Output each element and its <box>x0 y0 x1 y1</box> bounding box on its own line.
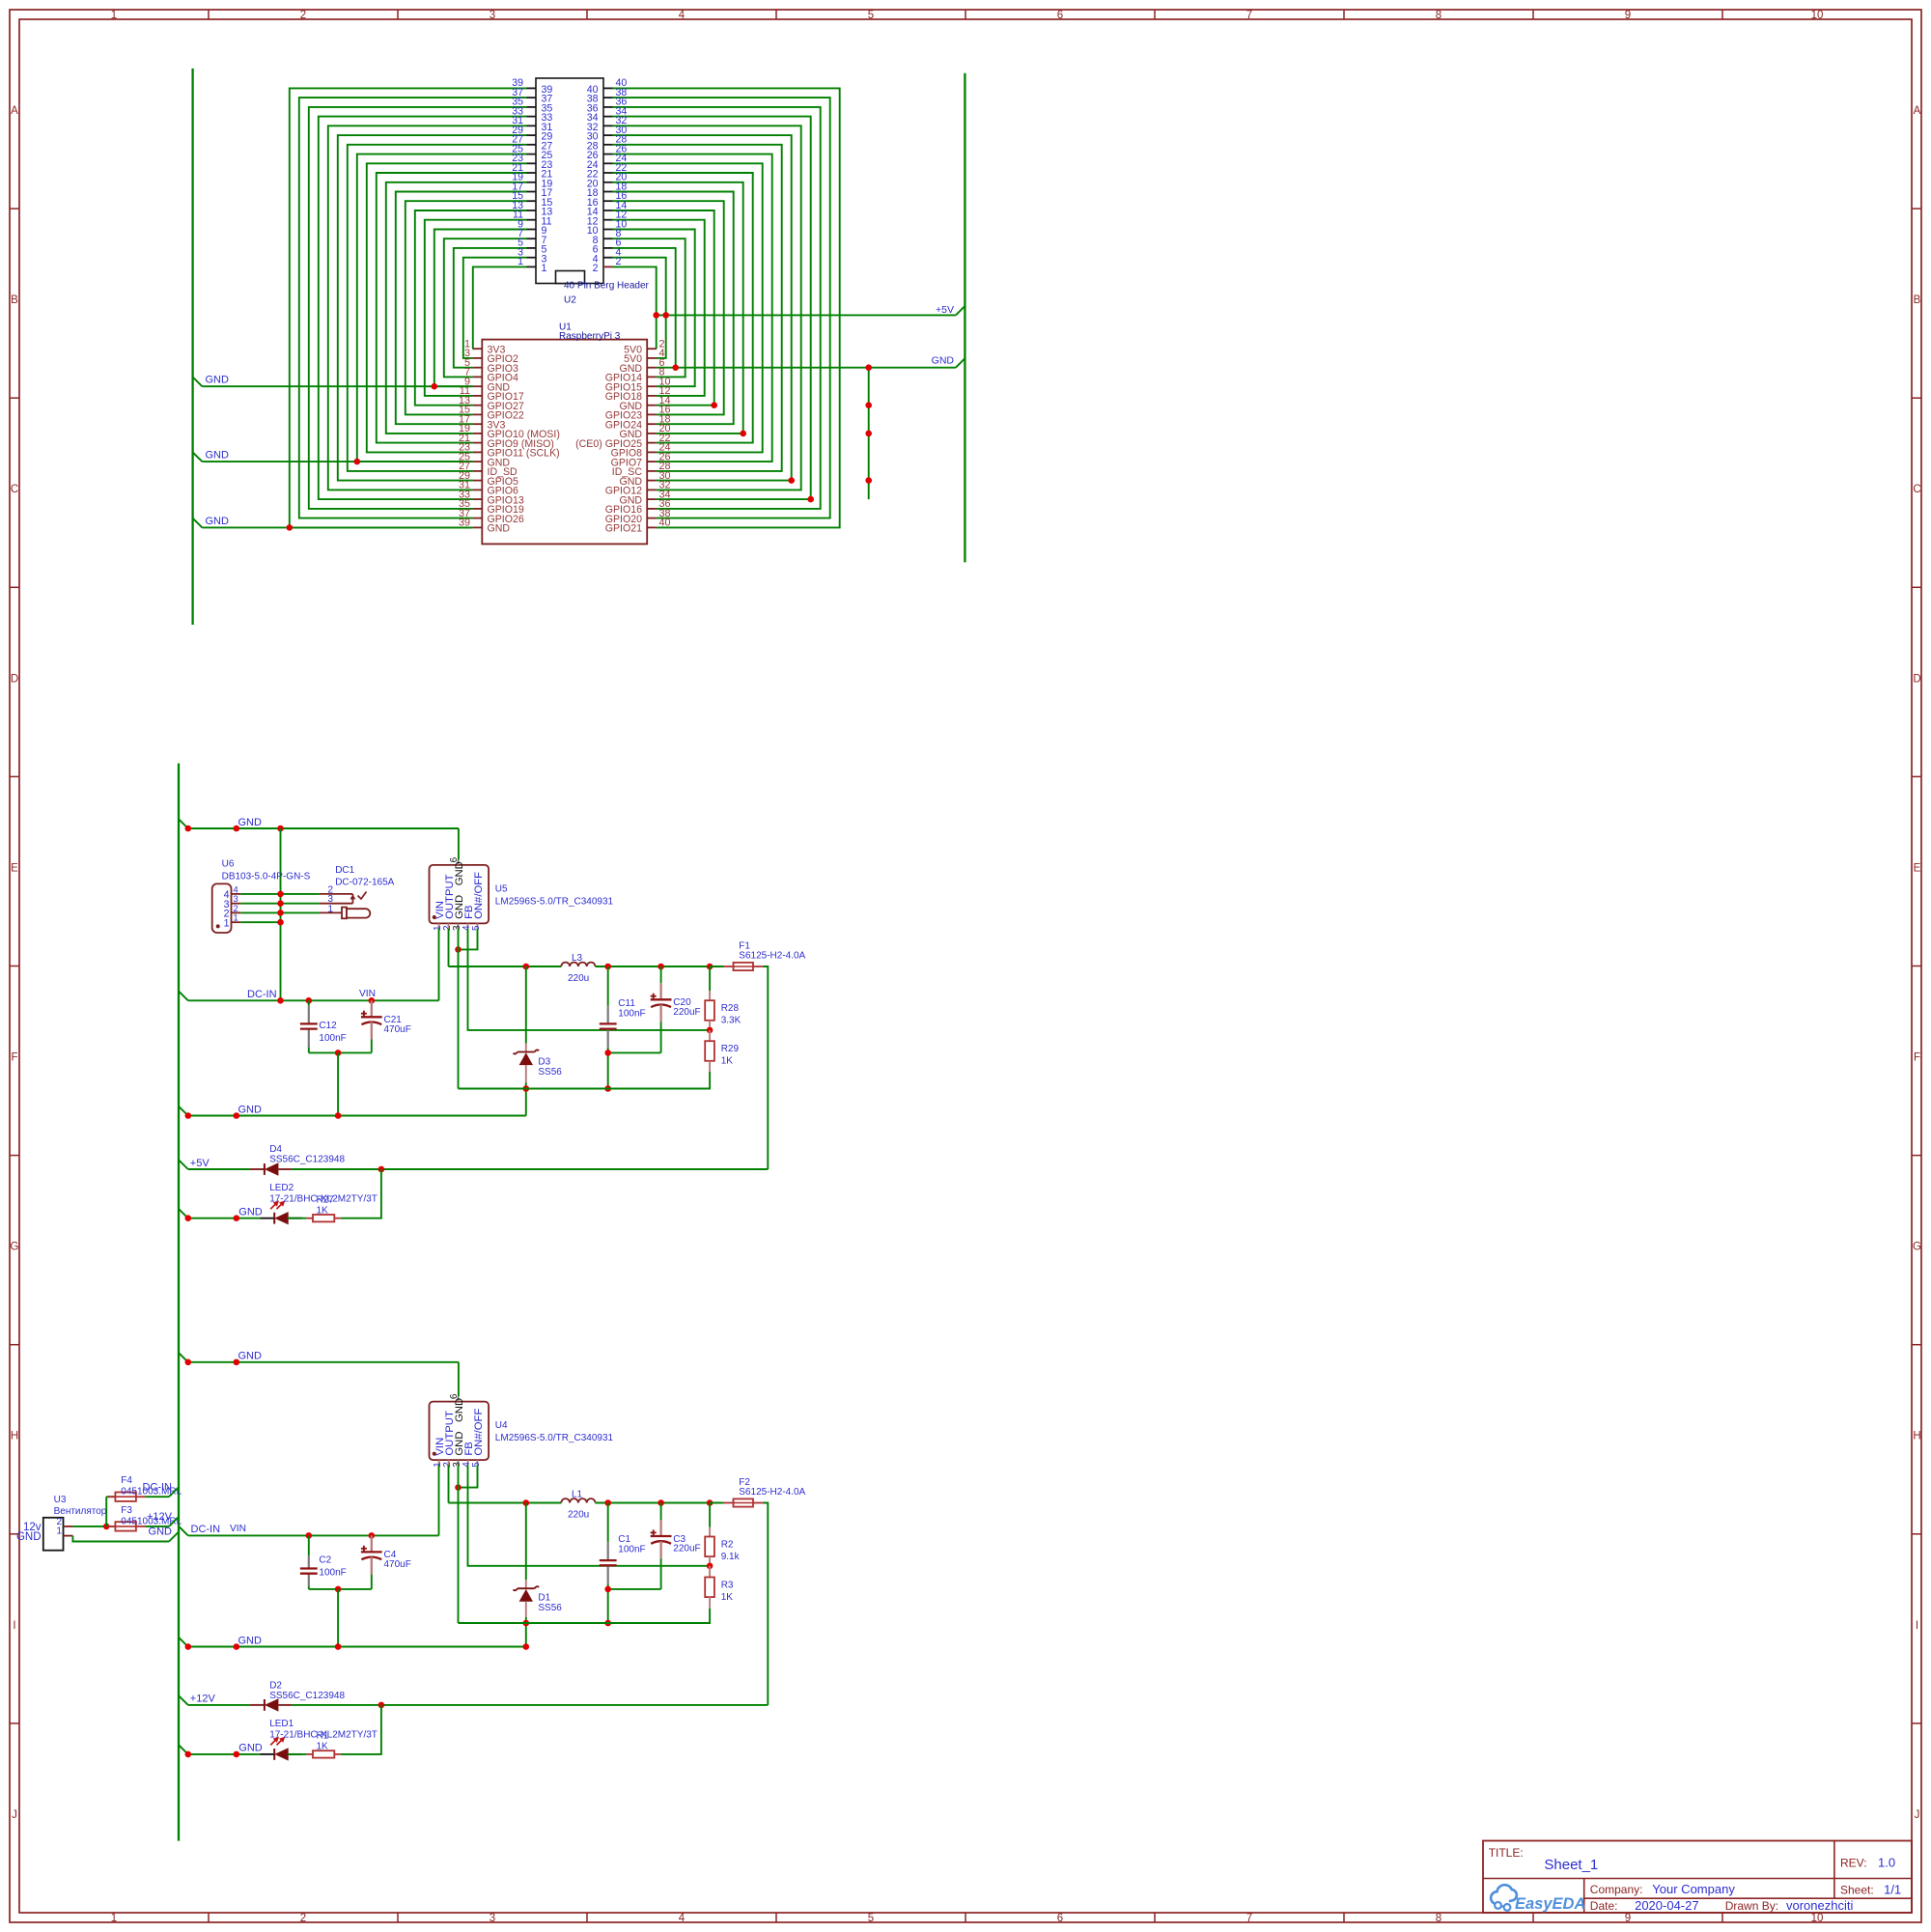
wire OUTPUT to D3 <box>525 966 527 1044</box>
wire OUTPUT to C1 <box>607 1503 609 1543</box>
svg-text:G: G <box>11 1242 19 1253</box>
svg-text:D3: D3 <box>538 1056 550 1067</box>
net label GND right <box>932 355 955 367</box>
wire U2 pin 12 to U1 pin 12 <box>613 220 705 396</box>
svg-text:Date:: Date: <box>1590 1899 1618 1913</box>
U4 pin 5 ON#/OFF <box>471 1409 485 1468</box>
svg-text:40 Pin Berg Header: 40 Pin Berg Header <box>564 280 650 291</box>
U2 pin 5 stub+numbers <box>518 238 546 256</box>
wire U2 pin 27 to U1 pin 27 <box>348 145 527 471</box>
wire C3 corner to C1 <box>608 1588 661 1590</box>
U1 pin 30 GND <box>619 470 670 488</box>
U1 pin 28 ID_SC <box>612 461 671 478</box>
net label GND <box>179 1104 262 1115</box>
wire U5 pin2 OUTPUT down <box>448 929 450 966</box>
diode D1 SS56 <box>514 1580 540 1623</box>
wire U3 pin2 to junction <box>72 1526 115 1527</box>
wire OUTPUT to F1 <box>710 966 723 967</box>
U5 pin 6 GND top <box>449 856 465 885</box>
wire VIN to C2 <box>308 1535 310 1555</box>
svg-text:R27: R27 <box>317 1195 335 1206</box>
svg-text:C11: C11 <box>618 998 635 1009</box>
connector U6 DB103 body <box>212 883 232 933</box>
svg-text:ON#/OFF: ON#/OFF <box>473 872 485 919</box>
net label DC-IN <box>179 989 277 1000</box>
wire U2 pin 34 to U1 pin 34 <box>613 117 811 499</box>
wire GND row 2 <box>188 1115 526 1117</box>
wire U2 pin 40 to U1 pin 40 <box>613 88 840 527</box>
U2 pin 16 stub+numbers <box>587 190 628 209</box>
net label GND <box>206 516 230 527</box>
U2 pin 10 stub+numbers <box>587 218 628 237</box>
wire C12 down <box>308 1048 310 1053</box>
U2 pin 24 stub+numbers <box>587 153 628 171</box>
U2 pin 9 stub+numbers <box>518 218 546 237</box>
wire U6 pin2 to DC1 pin1 <box>240 911 319 913</box>
wire C2-C4 join <box>309 1588 372 1590</box>
wire U2 pin 21 to U1 pin 21 <box>377 173 527 443</box>
diode D4 SS56C_C123948 <box>250 1162 293 1175</box>
wire F2 to +12V corner <box>763 1503 768 1705</box>
wire join to GND row <box>337 1052 339 1115</box>
svg-text:2: 2 <box>616 256 622 267</box>
junction C1 join <box>604 1586 611 1593</box>
svg-text:LM2596S-5.0/TR_C340931: LM2596S-5.0/TR_C340931 <box>495 1433 614 1443</box>
svg-text:D1: D1 <box>538 1592 550 1603</box>
R2 labels <box>721 1540 741 1563</box>
F3 labels <box>121 1505 182 1527</box>
U3 labels <box>54 1495 107 1517</box>
wire U2 pin 10 to U1 pin 10 <box>613 230 695 387</box>
junction <box>354 459 361 465</box>
resistor R29 1K <box>705 1030 714 1072</box>
junction pin5-pin3 <box>455 946 462 953</box>
svg-text:1/1: 1/1 <box>1884 1883 1901 1897</box>
svg-text:C: C <box>1913 484 1920 495</box>
R3 labels <box>721 1581 734 1604</box>
svg-text:1: 1 <box>111 10 117 21</box>
resistor R3 1K <box>705 1566 714 1609</box>
junctions OUTPUT row <box>523 964 714 970</box>
U2 pin 11 stub+numbers <box>513 210 552 228</box>
wire VIN to C12 <box>308 1000 310 1005</box>
svg-text:I: I <box>1916 1620 1918 1632</box>
wire VIN row bottom <box>188 1534 439 1536</box>
svg-text:LM2596S-5.0/TR_C340931: LM2596S-5.0/TR_C340931 <box>495 897 614 908</box>
svg-text:1K: 1K <box>721 1056 734 1067</box>
inductor L3 <box>561 953 595 984</box>
fuse F4 0451003.MRL <box>108 1493 145 1501</box>
svg-text:+12V: +12V <box>190 1694 216 1705</box>
wire U2 pin 5 to U1 pin 5 <box>454 248 527 368</box>
svg-text:1: 1 <box>518 256 523 267</box>
net label VIN bottom <box>230 1524 246 1534</box>
wire GND from left trunk to U1 pin 9 <box>193 378 473 387</box>
svg-text:470uF: 470uF <box>384 1559 411 1570</box>
U1 pin 11 GPIO17 <box>460 385 524 403</box>
net label VIN <box>359 989 376 999</box>
fuse F1 S6125-H2-4.0A <box>723 963 763 970</box>
frame column numbers top <box>111 10 1824 21</box>
svg-text:REV:: REV: <box>1840 1857 1867 1870</box>
svg-text:D: D <box>1913 673 1920 685</box>
U2 pin 27 stub+numbers <box>512 134 552 153</box>
svg-text:3: 3 <box>490 10 495 21</box>
svg-text:R1: R1 <box>317 1731 329 1742</box>
U2 pin 8 stub+numbers <box>593 228 622 246</box>
svg-text:8: 8 <box>1436 10 1441 21</box>
U1 pin 33 GPIO13 <box>459 489 524 506</box>
wire +5V row to D4 <box>188 1168 250 1170</box>
svg-text:DC-IN: DC-IN <box>191 1524 221 1535</box>
svg-text:ON#/OFF: ON#/OFF <box>473 1409 485 1456</box>
junction FB row <box>707 1027 714 1034</box>
U1 pin 36 GPIO16 <box>605 498 671 516</box>
capacitor C3 220uF (polarized) <box>651 1520 672 1589</box>
wire U2 pin 14 to U1 pin 14 <box>613 210 714 406</box>
wire OUTPUT to C20 <box>660 966 662 983</box>
net label +12V <box>147 1511 179 1526</box>
R29 labels <box>721 1044 740 1067</box>
wire OUTPUT to C11 <box>607 966 609 1005</box>
svg-text:U4: U4 <box>495 1420 508 1431</box>
svg-text:F: F <box>1914 1052 1920 1064</box>
svg-text:+5V: +5V <box>936 304 954 316</box>
capacitor C1 100nF <box>600 1542 617 1583</box>
wire GND top row to U5 pin6 <box>188 828 459 860</box>
svg-text:100nF: 100nF <box>319 1033 346 1044</box>
U2 pin 33 stub+numbers <box>512 105 552 124</box>
svg-text:10: 10 <box>1811 10 1824 21</box>
U1 pin 3 GPIO2 <box>464 348 518 365</box>
U2 pin 39 stub+numbers <box>512 77 552 96</box>
svg-text:Company:: Company: <box>1590 1883 1643 1896</box>
net label GND <box>206 450 230 462</box>
wire C2 down <box>308 1586 310 1589</box>
junctions GND top row <box>185 826 284 832</box>
svg-text:VIN: VIN <box>359 989 376 999</box>
svg-text:Your Company: Your Company <box>1652 1882 1735 1896</box>
capacitor C21 470uF (polarized) <box>361 1000 382 1052</box>
wire junction up to F4 <box>106 1497 115 1526</box>
U2 pin 40 stub+numbers <box>587 77 628 96</box>
U1 pin 5 GPIO3 <box>464 357 518 375</box>
svg-text:4: 4 <box>234 884 238 894</box>
svg-text:VIN: VIN <box>230 1524 246 1534</box>
U1 pin 16 GPIO23 <box>605 405 671 422</box>
svg-text:1: 1 <box>542 263 547 274</box>
svg-text:GND: GND <box>206 375 230 386</box>
wire OUTPUT row after L3 <box>596 966 724 967</box>
svg-text:1: 1 <box>111 1913 117 1924</box>
svg-text:H: H <box>11 1431 18 1442</box>
U2 pin 31 stub+numbers <box>512 115 552 133</box>
svg-text:2: 2 <box>300 1913 306 1924</box>
wire D1 to GND row <box>525 1623 527 1647</box>
junctions GND top row bottom-section <box>185 1359 240 1366</box>
svg-text:Drawn By:: Drawn By: <box>1725 1899 1778 1913</box>
svg-text:GND: GND <box>238 817 263 828</box>
wire F1 to +5V corner <box>763 966 768 1169</box>
R1 labels <box>317 1731 329 1752</box>
svg-text:S6125-H2-4.0A: S6125-H2-4.0A <box>739 1487 805 1498</box>
wire U4 pin1 VIN down <box>438 1466 440 1536</box>
wire F3 to +12V flag <box>145 1526 169 1527</box>
wire GND rail bottom <box>459 1622 711 1624</box>
U1 pin 25 GND <box>459 451 510 468</box>
svg-text:1: 1 <box>327 904 333 914</box>
U1 pin 4 5V0 <box>624 348 664 365</box>
svg-text:GND: GND <box>238 1104 263 1115</box>
wire U4 pin4 FB down to FB row <box>468 1466 711 1566</box>
svg-text:D: D <box>11 673 18 685</box>
wire U2 pin 22 to U1 pin 22 <box>613 173 753 443</box>
junction join mid bottom <box>335 1586 342 1593</box>
wire GND from left trunk to U1 pin 39 <box>193 518 473 528</box>
U1 pin 26 GPIO7 <box>611 451 671 468</box>
U6 pin 3 <box>224 894 241 910</box>
svg-text:R29: R29 <box>721 1044 740 1054</box>
wire U2 pin 30 to U1 pin 30 <box>613 135 792 481</box>
wire U2 pin 31 to U1 pin 31 <box>328 126 527 490</box>
U2 pin 36 stub+numbers <box>587 97 628 115</box>
svg-text:GPIO21: GPIO21 <box>605 523 642 535</box>
junctions U6 bus <box>277 891 284 926</box>
U1 pin 15 GPIO22 <box>459 405 524 422</box>
svg-text:DC-IN: DC-IN <box>247 989 277 1000</box>
IC U1 RaspberryPi 3 body <box>482 340 647 545</box>
svg-text:GND: GND <box>932 355 955 367</box>
U6 pin 1 <box>224 913 241 930</box>
U6 labels <box>222 858 311 882</box>
C3 labels <box>673 1534 700 1554</box>
net label GND <box>149 1526 179 1542</box>
junctions GND bus <box>672 364 872 502</box>
wire OUTPUT to R28 <box>709 966 711 991</box>
U3 pin 1 GND <box>16 1526 72 1544</box>
U4 pin 6 GND top <box>449 1393 465 1422</box>
wire +12V row to D2 <box>188 1704 250 1706</box>
wire U2 pin 19 to U1 pin 19 <box>386 182 527 434</box>
U1 pin 23 GPIO11 (SCLK) <box>459 442 560 460</box>
wire OUTPUT row bottom <box>449 1502 562 1504</box>
left vertical trunk GND (RPi) <box>191 69 193 625</box>
svg-text:220uF: 220uF <box>673 1544 700 1554</box>
svg-text:220uF: 220uF <box>673 1007 700 1018</box>
junctions rail <box>523 1085 612 1092</box>
junctions LED2 row <box>185 1215 240 1221</box>
net label GND <box>179 1351 262 1362</box>
svg-text:G: G <box>1913 1242 1921 1253</box>
svg-text:7: 7 <box>1246 10 1252 21</box>
svg-text:6: 6 <box>1057 10 1063 21</box>
svg-text:DC-072-165A: DC-072-165A <box>335 878 394 888</box>
net label GND <box>179 1207 263 1218</box>
U1 pin 14 GND <box>619 395 670 412</box>
wire GND rail <box>459 1088 711 1090</box>
svg-text:F4: F4 <box>121 1475 132 1486</box>
svg-text:S6125-H2-4.0A: S6125-H2-4.0A <box>739 951 805 962</box>
U1 labels <box>559 322 621 343</box>
U5 pin 1 VIN <box>433 901 446 931</box>
svg-text:9.1k: 9.1k <box>721 1552 741 1562</box>
svg-text:1K: 1K <box>317 1206 329 1217</box>
svg-text:E: E <box>1914 862 1921 874</box>
svg-text:LED1: LED1 <box>269 1719 294 1729</box>
D2 labels <box>269 1681 345 1701</box>
svg-text:2: 2 <box>300 10 306 21</box>
U1 pin 39 GND <box>459 518 510 535</box>
svg-text:SS56C_C123948: SS56C_C123948 <box>269 1691 345 1701</box>
svg-text:Вентилятор: Вентилятор <box>54 1506 107 1517</box>
junctions GND row 2 <box>185 1112 342 1119</box>
svg-text:F: F <box>11 1052 17 1064</box>
wire U2 pin 38 to U1 pin 38 <box>613 98 830 518</box>
C12 labels <box>319 1021 346 1044</box>
GND bus vertical right of U1 <box>868 368 870 499</box>
U3 pin 2 12v <box>23 1517 72 1533</box>
wire GND top row to U4 pin6 <box>188 1362 459 1397</box>
U2 pin 30 stub+numbers <box>587 125 628 143</box>
svg-text:U3: U3 <box>54 1495 67 1505</box>
wire R29 to rail corner <box>459 1072 711 1089</box>
U1 pin 21 GPIO9 (MISO) <box>459 433 554 450</box>
svg-text:GND: GND <box>238 1743 262 1754</box>
svg-text:DC-IN: DC-IN <box>142 1481 172 1493</box>
wire U2 pin 39 to U1 pin 39 <box>290 88 527 527</box>
svg-text:C2: C2 <box>319 1555 331 1566</box>
svg-text:220u: 220u <box>568 973 589 984</box>
wire U2 pin 2 to U1 pin 2 <box>613 266 657 349</box>
wire GND from left trunk to U1 pin 25 <box>193 452 473 462</box>
svg-text:1: 1 <box>57 1526 62 1537</box>
U2 pin 28 stub+numbers <box>587 134 628 153</box>
svg-text:GND: GND <box>206 516 230 527</box>
svg-text:TITLE:: TITLE: <box>1489 1846 1524 1860</box>
svg-text:B: B <box>11 294 18 306</box>
wire U2 pin 17 to U1 pin 17 <box>396 192 527 425</box>
capacitor C12 100nF <box>300 1005 318 1047</box>
right vertical trunk +5V/GND <box>964 73 965 563</box>
svg-text:Sheet:: Sheet: <box>1840 1884 1874 1897</box>
wire D3 to GND row <box>525 1089 527 1116</box>
U5 pin 5 ON#/OFF <box>471 872 485 931</box>
inductor L1 220u <box>561 1498 595 1502</box>
net label GND <box>179 1743 263 1754</box>
U5 labels <box>495 884 614 908</box>
svg-text:+5V: +5V <box>190 1158 210 1169</box>
svg-text:SS56C_C123948: SS56C_C123948 <box>269 1154 345 1164</box>
svg-text:U6: U6 <box>222 858 235 869</box>
R28 labels <box>721 1003 742 1026</box>
svg-text:EasyEDA: EasyEDA <box>1515 1895 1585 1913</box>
connector U3 fan body <box>43 1518 64 1551</box>
junctions GND row 2 bottom <box>185 1643 530 1650</box>
U2 pin 32 stub+numbers <box>587 115 628 133</box>
F4 labels <box>121 1475 182 1498</box>
wire U2 pin 28 to U1 pin 28 <box>613 145 782 471</box>
U1 pin 22 (CE0) GPIO25 <box>575 433 670 450</box>
U1 pin 34 GND <box>619 489 670 506</box>
svg-text:100nF: 100nF <box>319 1568 346 1579</box>
svg-text:H: H <box>1913 1431 1920 1442</box>
wire U2 pin 25 to U1 pin 25 <box>357 154 527 462</box>
wire U2 pin 4 to U1 pin 4 <box>613 258 666 358</box>
svg-text:C12: C12 <box>319 1021 337 1031</box>
wire F4 to DC-IN flag <box>145 1496 169 1498</box>
wire U6 pin1 stub <box>240 921 280 923</box>
svg-text:1: 1 <box>234 913 238 923</box>
wire D2 to corner <box>292 1704 768 1706</box>
wire U2 pin 1 to U1 pin 1 <box>473 266 527 349</box>
wire U6 bus vertical <box>280 828 282 1000</box>
wire U4 pin3 GND down <box>458 1466 460 1624</box>
svg-text:1K: 1K <box>317 1742 329 1752</box>
D4 labels <box>269 1144 345 1164</box>
EasyEDA logo <box>1491 1885 1585 1913</box>
title block <box>1483 1841 1912 1914</box>
svg-text:GND: GND <box>149 1526 173 1538</box>
U2 pin 34 stub+numbers <box>587 105 628 124</box>
svg-text:GND: GND <box>238 1635 263 1646</box>
svg-text:A: A <box>1914 105 1921 117</box>
net label GND <box>179 1635 262 1646</box>
U4 pin 4 FB <box>462 1442 475 1468</box>
C1 labels <box>618 1534 645 1555</box>
U2 pin 14 stub+numbers <box>587 200 628 218</box>
R27 labels <box>317 1195 335 1217</box>
junctions OUTPUT row bottom <box>523 1499 714 1506</box>
U1 pin 12 GPIO18 <box>605 385 671 403</box>
svg-text:SS56: SS56 <box>538 1603 562 1613</box>
svg-text:+12V: +12V <box>147 1511 173 1523</box>
DC1 pin numbers <box>327 884 333 914</box>
junctions LED1 row <box>185 1751 240 1758</box>
svg-text:GND: GND <box>238 1207 262 1218</box>
svg-text:L1: L1 <box>572 1490 583 1500</box>
svg-text:I: I <box>13 1620 15 1632</box>
frame row letters right <box>1913 105 1921 1821</box>
capacitor C2 100nF <box>300 1555 318 1586</box>
wire U2 pin 9 to U1 pin 9 <box>434 230 527 387</box>
wire OUTPUT to C3 <box>660 1503 662 1521</box>
svg-text:3: 3 <box>234 894 238 904</box>
D3 labels <box>538 1056 562 1078</box>
resistor R2 9.1k <box>705 1527 714 1566</box>
svg-text:2: 2 <box>234 904 238 913</box>
F2 labels <box>739 1477 805 1498</box>
junction +12V LED drop <box>378 1702 385 1709</box>
wire GND to LED2 <box>188 1218 260 1219</box>
junction FB row bottom <box>707 1563 714 1570</box>
U1 pin 10 GPIO15 <box>605 376 671 393</box>
wire U5 pin3 GND down <box>458 929 460 1089</box>
svg-text:C: C <box>11 484 18 495</box>
svg-text:10: 10 <box>1811 1913 1824 1924</box>
wire U5 pin5 jog to GND <box>459 929 478 950</box>
U4 pin 2 OUTPUT <box>442 1411 456 1468</box>
svg-text:9: 9 <box>1625 10 1631 21</box>
U4 pin 3 GND <box>452 1431 465 1467</box>
svg-text:8: 8 <box>1436 1913 1441 1924</box>
LED2 labels <box>269 1183 378 1205</box>
U2 pin 1 stub+numbers <box>518 256 546 274</box>
capacitor C20 220uF (polarized) <box>651 983 672 1052</box>
svg-text:GND: GND <box>206 450 230 462</box>
svg-text:GND: GND <box>16 1531 42 1543</box>
U2 pin 25 stub+numbers <box>512 143 552 161</box>
wire U2 pin 16 to U1 pin 16 <box>613 201 724 414</box>
